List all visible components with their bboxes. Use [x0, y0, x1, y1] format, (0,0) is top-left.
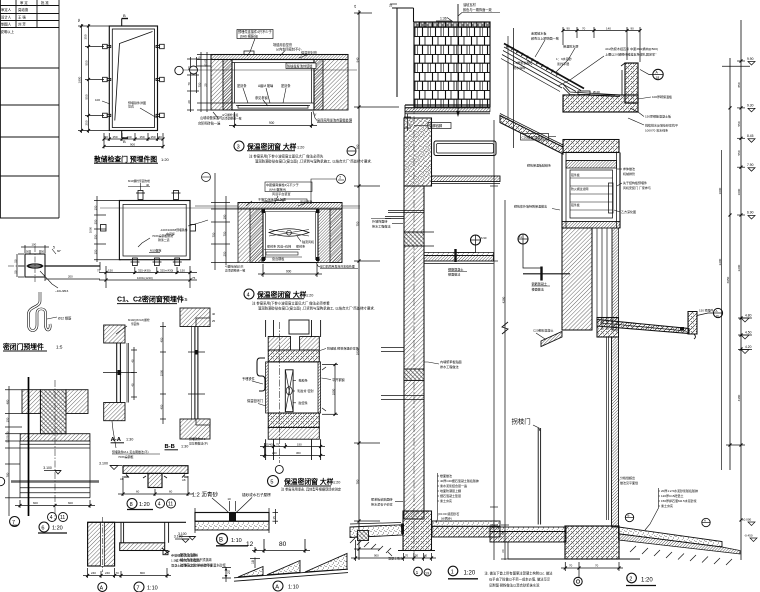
svg-text:6950: 6950: [726, 276, 730, 283]
svg-text:150: 150: [94, 249, 98, 254]
detail 3 left jamb masonry: [211, 60, 232, 111]
svg-text:保温密闭窗 大样: 保温密闭窗 大样: [246, 142, 297, 151]
svg-text:1.5厚聚氨酯: 1.5厚聚氨酯: [513, 60, 530, 65]
svg-text:100X70 滴水线条: 100X70 滴水线条: [645, 128, 668, 133]
detail 4 inner leader texts: [267, 244, 305, 262]
svg-text:参体做法: 参体做法: [623, 166, 635, 171]
svg-text:50: 50: [26, 250, 30, 254]
C1C2 inner leader text: [152, 233, 173, 242]
embed plate top dims: [21, 245, 49, 254]
svg-text:做法见平面缝: 做法见平面缝: [620, 480, 638, 485]
svg-text:80: 80: [279, 541, 287, 548]
level target symbol mid floor: [471, 235, 481, 245]
C1C2 embed detail: top bolts: [128, 183, 181, 200]
svg-text:50: 50: [415, 554, 419, 558]
detail 6 center pier concrete: [40, 390, 66, 434]
svg-text:A: A: [716, 309, 718, 313]
svg-text:防结露发泡剂填缝: 防结露发泡剂填缝: [287, 63, 313, 68]
detail 5 right dim: [322, 365, 338, 415]
middle section right dimension line: [493, 120, 495, 560]
svg-text:1:20: 1:20: [139, 502, 150, 508]
svg-text:(6A6 螺栓M): (6A6 螺栓M): [269, 187, 286, 192]
svg-text:50: 50: [159, 135, 163, 139]
interior ground floor: [432, 521, 500, 526]
svg-text:掺水泥石子砂浆: 掺水泥石子砂浆: [371, 502, 393, 507]
svg-text:轴流风机: 轴流风机: [302, 239, 314, 244]
svg-text:2200: 2200: [718, 258, 722, 265]
svg-text:总须调整统一致: 总须调整统一致: [222, 117, 242, 121]
middle floor slab: [424, 253, 494, 256]
detail 3 window opening frame: [232, 60, 314, 111]
svg-text:-0.450: -0.450: [744, 534, 753, 538]
svg-text:窗四周用发泡剂塞缝处理: 窗四周用发泡剂塞缝处理: [317, 118, 353, 123]
detail 4 title: [244, 289, 254, 299]
svg-text:250: 250: [85, 120, 89, 125]
svg-text:审定人: 审定人: [1, 7, 12, 12]
svg-text:20厚1:2.5水泥砂浆随捣随抹: 20厚1:2.5水泥砂浆随捣随抹: [661, 488, 698, 493]
ground makeup list right: [661, 488, 698, 508]
svg-text:Ø100: Ø100: [593, 90, 600, 94]
svg-text:1:20: 1:20: [297, 145, 304, 149]
svg-text:15: 15: [272, 516, 276, 520]
vent window box: [562, 153, 620, 229]
svg-text:75: 75: [192, 276, 196, 280]
svg-text:23: 23: [353, 4, 357, 8]
svg-text:900: 900: [374, 554, 379, 558]
svg-text:1:5: 1:5: [56, 345, 63, 350]
svg-text:注 参窗采用(下参小波密窗立面见大厂 做法必须参看: 注 参窗采用(下参小波密窗立面见大厂 做法必须参看: [252, 301, 330, 306]
svg-text:5: 5: [53, 246, 55, 250]
svg-text:先于结构板预埋件: 先于结构板预埋件: [623, 180, 647, 185]
svg-text:40: 40: [198, 56, 202, 60]
svg-text:190: 190: [223, 214, 227, 219]
svg-text:B-B: B-B: [165, 444, 175, 450]
right section roof slope extension lines: [513, 28, 515, 148]
svg-text:190: 190: [297, 442, 302, 446]
svg-text:窗台钢板: 窗台钢板: [272, 256, 284, 261]
B-B mid bolts: [188, 351, 205, 353]
detail 5 sash with X brace: [285, 370, 293, 412]
svg-text:60: 60: [501, 549, 505, 553]
svg-text:450: 450: [160, 404, 164, 409]
tile roof top label: [463, 2, 492, 12]
svg-text:19: 19: [425, 571, 429, 575]
embed plate centerlines: [8, 265, 46, 267]
svg-text:分格缝超出: 分格缝超出: [620, 475, 635, 480]
C1C2 outer frame: [119, 201, 190, 260]
svg-text:360: 360: [296, 451, 301, 455]
svg-text:1:20: 1:20: [333, 481, 340, 485]
svg-text:B: B: [123, 139, 126, 144]
svg-text:1:20: 1:20: [161, 157, 170, 162]
svg-text:550: 550: [737, 121, 741, 126]
S hook leader: [47, 317, 57, 319]
svg-text:550: 550: [85, 60, 89, 65]
svg-text:40: 40: [131, 359, 135, 363]
detail 6 top left masonry block: [22, 390, 40, 414]
svg-text:胶密条: 胶密条: [299, 400, 308, 405]
svg-text:100厚砌保温板: 100厚砌保温板: [652, 94, 672, 99]
middle section parapet back lines: [390, 4, 414, 97]
svg-text:3.100: 3.100: [99, 462, 108, 466]
svg-text:(6A6 横竖向): (6A6 横竖向): [240, 34, 258, 39]
svg-text:1.5缓冲砂浆条斜度向: 1.5缓冲砂浆条斜度向: [171, 558, 200, 563]
far right third line: [721, 150, 723, 470]
svg-text:注. 做法下首上所有图里注混凝土构附以c. 做法: 注. 做法下首上所有图里注混凝土构附以c. 做法: [485, 571, 554, 576]
door inner frame: [112, 29, 154, 128]
svg-text:B: B: [628, 514, 630, 518]
svg-text:±0.000: ±0.000: [742, 518, 751, 522]
svg-text:1: 1: [416, 570, 419, 576]
svg-text:11: 11: [168, 502, 173, 508]
svg-text:5/: 5/: [314, 113, 317, 117]
svg-text:940: 940: [356, 57, 360, 62]
canopy upturn lip: [688, 312, 697, 335]
svg-text:40: 40: [131, 383, 135, 387]
C1C2 left dim column: [94, 196, 121, 262]
upper floor slab: [432, 176, 501, 182]
floor makeup list: [440, 473, 479, 503]
svg-text:50: 50: [501, 531, 505, 535]
anchor bolt at mid floor: [454, 249, 456, 262]
detail 5 bottom dims: [260, 443, 325, 458]
embed plate thickness leader: [52, 249, 56, 254]
svg-text:4: 4: [158, 502, 161, 508]
svg-text:1:20: 1:20: [464, 571, 476, 577]
svg-text:240: 240: [91, 571, 96, 575]
svg-text:1:36: 1:36: [440, 17, 447, 21]
svg-text:25: 25: [212, 319, 216, 323]
svg-text:9.90: 9.90: [747, 57, 754, 61]
svg-text:40厚C20细石混凝土随捣随抹: 40厚C20细石混凝土随捣随抹: [440, 478, 479, 483]
svg-text:混凝土边"抹水泥石子砂浆找坡: 混凝土边"抹水泥石子砂浆找坡: [171, 563, 212, 568]
detail 7 top line: [88, 521, 186, 523]
upper wall below window: [562, 228, 592, 330]
svg-text:风道+石棉: 风道+石棉: [277, 244, 291, 249]
detail 3 title: [234, 141, 244, 151]
svg-text:11: 11: [519, 235, 522, 239]
svg-text:1: 1: [451, 569, 454, 575]
svg-text:750: 750: [356, 221, 360, 226]
detail 3 small embed plate above opening: [244, 51, 254, 55]
middle section left dimension line: [358, 10, 360, 560]
wall centerline: [413, 60, 415, 560]
svg-text:20: 20: [187, 100, 191, 104]
svg-text:6.90: 6.90: [747, 211, 754, 215]
svg-text:预埋铁件M-1 见左图做法(不): 预埋铁件M-1 见左图做法(不): [112, 449, 149, 454]
detail 4 fan: [269, 229, 309, 237]
svg-text:颜色与上期饰面一致: 颜色与上期饰面一致: [531, 36, 559, 41]
svg-text:150: 150: [94, 205, 98, 210]
svg-text:~10L/Ø16: ~10L/Ø16: [55, 289, 69, 293]
detail 5 centerline: [278, 322, 280, 463]
detail B bedding layer: [195, 521, 269, 530]
detail 6 heavy cut line: [28, 377, 30, 516]
detail 4 opening frame: [263, 209, 318, 263]
B-B dim column: [160, 322, 166, 424]
svg-text:保温密闭窗 大样: 保温密闭窗 大样: [283, 477, 334, 486]
svg-text:A: A: [100, 585, 104, 591]
svg-text:350: 350: [94, 219, 98, 224]
svg-text:60: 60: [169, 490, 173, 494]
svg-text:素水泥浆结合层一遍: 素水泥浆结合层一遍: [440, 483, 467, 488]
svg-text:2: 2: [339, 176, 341, 180]
vent window right leader texts: [621, 166, 651, 214]
detail 3 left leader notes: [198, 115, 223, 126]
detail 4 bottom leader notes: [225, 264, 245, 273]
svg-text:3.100: 3.100: [174, 535, 183, 539]
C1C2 inner frame: [123, 204, 186, 256]
svg-text:2: 2: [629, 576, 632, 582]
svg-text:70(40): 70(40): [265, 442, 273, 446]
detail 6 double lines below sill: [20, 441, 90, 498]
svg-text:100: 100: [95, 98, 100, 102]
C1C2 side tabs: [101, 225, 107, 232]
svg-text:4: 4: [50, 515, 53, 521]
B-B strip: top corner block: [180, 308, 210, 327]
detail 3 inner leader texts: [237, 83, 291, 100]
svg-text:浆找平层: 浆找平层: [557, 61, 569, 66]
svg-text:1:10: 1:10: [147, 586, 158, 592]
detail 7 upper wall lines: [121, 522, 169, 543]
title block table: [0, 0, 59, 218]
svg-text:600: 600: [68, 501, 73, 505]
svg-text:中间焊: 中间焊: [166, 231, 175, 236]
svg-text:790: 790: [356, 144, 360, 149]
svg-text:40: 40: [146, 183, 150, 187]
svg-text:制图人: 制图人: [1, 22, 12, 27]
C1C2 right leader: [188, 220, 208, 226]
detail 7 pier centerline: [101, 517, 103, 572]
slope detail left notes: [180, 552, 227, 568]
detail 7 end anchor: [162, 548, 170, 555]
detail 5 seal bracket left: [257, 358, 265, 391]
canopy level flags: [745, 314, 752, 350]
detail 3 bottom dimension: [229, 112, 317, 128]
detail 4 top annotations: [258, 182, 312, 204]
detail 4 head slab band: [238, 203, 342, 210]
embed plate anchor rod: [45, 265, 100, 267]
middle section tile roof elevation: [414, 22, 490, 107]
A-A mid bolt: [103, 372, 134, 374]
axis circles bottom: [414, 567, 423, 576]
detail 4 bottom dims: [258, 264, 322, 277]
detail 3 left jamb insulation: [223, 60, 232, 111]
svg-text:70: 70: [569, 564, 573, 568]
svg-text:12: 12: [246, 541, 254, 548]
svg-text:90: 90: [631, 27, 635, 31]
svg-text:(±0.00 级配砂石: (±0.00 级配砂石: [438, 511, 459, 516]
A-A bolt label box: [128, 318, 150, 326]
svg-text:楼面做法: 楼面做法: [448, 272, 460, 277]
svg-text:掺水工程做法: 掺水工程做法: [440, 364, 459, 369]
svg-text:150: 150: [113, 135, 118, 139]
svg-text:注 参窗采用承永, 具体型号根据现场实测定: 注 参窗采用承永, 具体型号根据现场实测定: [281, 487, 342, 492]
right section foundation: [565, 526, 619, 559]
svg-text:上覆以2X解砌纤维挂瓦条绑扎固定牢": 上覆以2X解砌纤维挂瓦条绑扎固定牢": [605, 52, 656, 57]
apron detail circles: [625, 513, 633, 521]
svg-text:掺水工程做法: 掺水工程做法: [372, 224, 391, 229]
detail 7 axis circle A: [98, 583, 107, 592]
svg-text:550: 550: [737, 150, 741, 155]
svg-text:乙方深化图: 乙方深化图: [621, 209, 636, 214]
detail 8 bottom dim: [118, 476, 193, 496]
slope detail A base lines: [234, 569, 348, 581]
svg-text:注 参窗采用(下参小波密窗立面见大厂 做法必须先: 注 参窗采用(下参小波密窗立面见大厂 做法必须先: [249, 154, 324, 159]
svg-text:75: 75: [276, 442, 280, 446]
detail 4 left dim column: [211, 173, 238, 270]
svg-text:50: 50: [14, 259, 18, 263]
joint note on lower wall: [620, 475, 638, 485]
svg-text:拐枝门: 拐枝门: [512, 417, 531, 426]
svg-text:5: 5: [270, 479, 273, 485]
detail 5 lintel concrete band: [268, 350, 319, 362]
svg-text:150: 150: [6, 417, 10, 422]
svg-text:1000: 1000: [718, 187, 722, 194]
roof top leader texts: [513, 31, 658, 71]
title block cell texts: [1, 0, 50, 34]
svg-text:450: 450: [160, 337, 164, 342]
svg-text:1:5: 1:5: [181, 297, 188, 302]
svg-text:山墙增做保温时: 山墙增做保温时: [200, 115, 223, 120]
upper floor line right section: [523, 273, 570, 275]
slope detail A triangle 1: [238, 567, 263, 578]
svg-text:50,50,50: 50,50,50: [6, 431, 10, 442]
svg-text:1:30: 1:30: [181, 445, 188, 449]
svg-text:保温密闭门: 保温密闭门: [247, 398, 263, 403]
detail 8 end anchor hooks: [124, 475, 188, 479]
right section roof tile band: [501, 44, 584, 92]
svg-text:紧固件: 紧固件: [131, 322, 140, 326]
svg-text:240: 240: [105, 571, 110, 575]
embed plate bottom dim: [45, 276, 100, 281]
canopy detail marker: [713, 308, 722, 317]
detail 7 bottom dims: [83, 568, 171, 578]
detail 5 lower wall strips: [266, 439, 321, 460]
embed plate weld leader to rod: [40, 271, 58, 288]
lower wall: [612, 337, 619, 527]
svg-text:11: 11: [60, 515, 65, 521]
detail marker circle A18: [653, 69, 663, 79]
right apron: [619, 527, 723, 547]
ring beam top block: [404, 118, 432, 186]
gutter right parapet: [625, 63, 638, 103]
wall tie extension lines: [381, 232, 434, 400]
detail 5 inner right texts: [297, 378, 313, 405]
svg-text:325-(430): 325-(430): [138, 269, 151, 273]
svg-text:密封条: 密封条: [296, 244, 305, 249]
svg-text:参见参窗: 参见参窗: [255, 95, 268, 100]
section notes: [485, 571, 554, 588]
svg-text:见右: 见右: [128, 104, 134, 109]
detail 3 right jamb masonry: [314, 60, 348, 111]
svg-text:台阶砌砖贴一遍: 台阶砌砖贴一遍: [198, 121, 221, 126]
svg-text:平开钢窗: 平开钢窗: [332, 377, 345, 382]
C20 concrete label box: [521, 134, 549, 141]
svg-text:细石混凝土垫层: 细石混凝土垫层: [440, 493, 461, 498]
svg-text:C20细石混凝土: C20细石混凝土: [533, 328, 554, 333]
A-A bottom corner block: [104, 403, 125, 421]
small dim column right of door: [187, 57, 199, 112]
detail 7 notes: [171, 553, 212, 568]
svg-text:外墙饰面砖: 外墙饰面砖: [372, 219, 387, 224]
detail B slab with joint: [195, 513, 269, 522]
far right dim line outer: [740, 20, 742, 560]
svg-text:内墙聚苯板贴面: 内墙聚苯板贴面: [440, 359, 462, 364]
svg-text:保温防水层: 保温防水层: [563, 44, 578, 49]
svg-text:莫培德: 莫培德: [18, 7, 29, 12]
svg-text:6.90: 6.90: [481, 236, 487, 240]
wall tie lines upper: [385, 211, 424, 219]
svg-text:8: 8: [130, 502, 133, 508]
svg-text:800: 800: [140, 571, 145, 575]
eave edge bands: [405, 105, 490, 118]
door outer frame: [109, 26, 157, 131]
svg-text:砌筑体外墙特殊保温做法: 砌筑体外墙特殊保温做法: [514, 204, 547, 209]
S hook anchor: [29, 292, 51, 331]
svg-text:颜色与一期饰面一致: 颜色与一期饰面一致: [463, 7, 492, 12]
svg-text:防火阀过滤网: 防火阀过滤网: [571, 186, 588, 191]
detail B label: [217, 534, 228, 545]
detail 6 label: [39, 522, 49, 532]
svg-text:850: 850: [737, 82, 741, 87]
far right level flags: [747, 57, 754, 215]
svg-text:B: B: [123, 13, 126, 18]
detail 3 lintel slab band: [211, 55, 348, 60]
canopy drain: [680, 327, 684, 330]
A-A frame strips: [117, 343, 129, 403]
svg-text:说明以上: 说明以上: [1, 29, 15, 34]
detail 5 sill masonry: [268, 427, 319, 439]
slope detail A triangle 3: [305, 554, 347, 573]
svg-text:1：3水泥砂: 1：3水泥砂: [556, 56, 572, 61]
earth hatch ticks left: [350, 538, 391, 553]
svg-text:350: 350: [94, 234, 98, 239]
B-B bottom corner block: [180, 419, 210, 439]
svg-text:A级M 玻璃: A级M 玻璃: [258, 83, 274, 88]
svg-text:参做细部(见总说明): 参做细部(见总说明): [171, 553, 198, 558]
svg-text:40: 40: [424, 554, 428, 558]
svg-text:防碱玻,砌筑保温砂浆条: 防碱玻,砌筑保温砂浆条: [327, 346, 359, 351]
svg-text:1000: 1000: [737, 188, 741, 195]
svg-text:批 准: 批 准: [41, 0, 49, 5]
svg-text:4.50: 4.50: [745, 331, 752, 335]
detail 3 right jamb insulation: [314, 60, 323, 111]
wall finish note upper left: [372, 219, 391, 229]
svg-text:油毡瓦材: 油毡瓦材: [463, 2, 477, 7]
svg-text:70: 70: [187, 82, 191, 86]
svg-text:780: 780: [6, 472, 10, 477]
kerb: [358, 531, 369, 541]
C1C2 bottom dimensions: [99, 266, 197, 288]
detail 4 right jamb: [318, 209, 342, 263]
middle section level marker circle left: [347, 147, 356, 156]
svg-text:设计人: 设计人: [1, 15, 12, 20]
svg-text:铝条板: 铝条板: [571, 202, 580, 207]
detail 8 T-beam flange: [123, 466, 188, 474]
svg-text:砌筑保温板黏结条: 砌筑保温板黏结条: [527, 163, 551, 168]
detail 3 label box inside: [286, 63, 316, 69]
svg-text:4: 4: [247, 292, 250, 298]
svg-text:保温密闭窗 大样: 保温密闭窗 大样: [256, 290, 307, 299]
svg-text:1:10: 1:10: [288, 585, 299, 591]
far right rotated dims: [502, 82, 742, 401]
svg-text:窗口四周用发泡剂塞缝处理: 窗口四周用发泡剂塞缝处理: [320, 264, 355, 269]
svg-text:4C2防腐木挂瓦条 中距360(横向@500): 4C2防腐木挂瓦条 中距360(横向@500): [605, 46, 658, 51]
svg-text:橡胶条: 橡胶条: [299, 378, 308, 383]
detail 6 axis circle 7: [10, 517, 20, 527]
right section floor labels: [532, 281, 547, 292]
